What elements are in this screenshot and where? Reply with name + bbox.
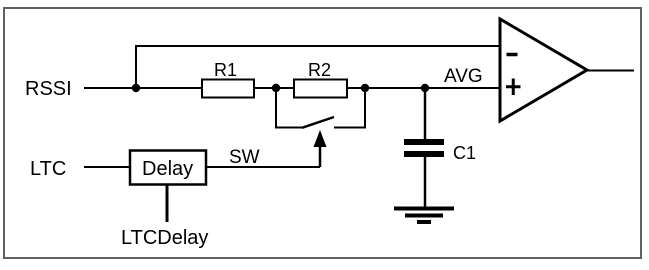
wire RSSI input (84, 87, 136, 89)
op-amp U1 (500, 19, 587, 121)
capacitor C1 (404, 139, 476, 163)
svg-text:RSSI: RSSI (25, 78, 72, 100)
block Delay (130, 151, 206, 185)
wire AVG to C1 (424, 88, 427, 139)
svg-text:AVG: AVG (444, 66, 483, 87)
svg-text:SW: SW (229, 147, 260, 168)
node AVG (421, 84, 429, 92)
node junction at RSSI feedback tap (132, 84, 140, 92)
wire switch bypass left (276, 88, 304, 128)
wire RSSI to R1 (136, 87, 202, 89)
node junction R2 right (361, 84, 369, 92)
wire C1 to ground (424, 157, 427, 207)
wire feedback to op-amp inverting input (136, 46, 500, 88)
svg-text:LTC: LTC (30, 158, 66, 180)
wire LTCDelay stub (166, 185, 169, 222)
switch SW blade (302, 117, 334, 128)
wire R2 to op-amp non-inverting input (347, 87, 500, 89)
svg-text:R2: R2 (308, 60, 331, 80)
wire LTC input (84, 166, 130, 168)
wire SW to switch (206, 166, 320, 168)
wire R1 to R2 (254, 87, 294, 89)
svg-text:R1: R1 (214, 60, 237, 80)
wire op-amp output (587, 70, 634, 72)
svg-text:Delay: Delay (142, 158, 193, 180)
resistor R2 (294, 60, 347, 98)
node junction R1-R2 (272, 84, 280, 92)
resistor R1 (202, 60, 254, 98)
ground (394, 209, 454, 223)
wire switch bypass right (334, 88, 365, 128)
svg-text:C1: C1 (453, 143, 476, 163)
switch control arrow (314, 130, 327, 167)
svg-text:LTCDelay: LTCDelay (121, 227, 208, 249)
